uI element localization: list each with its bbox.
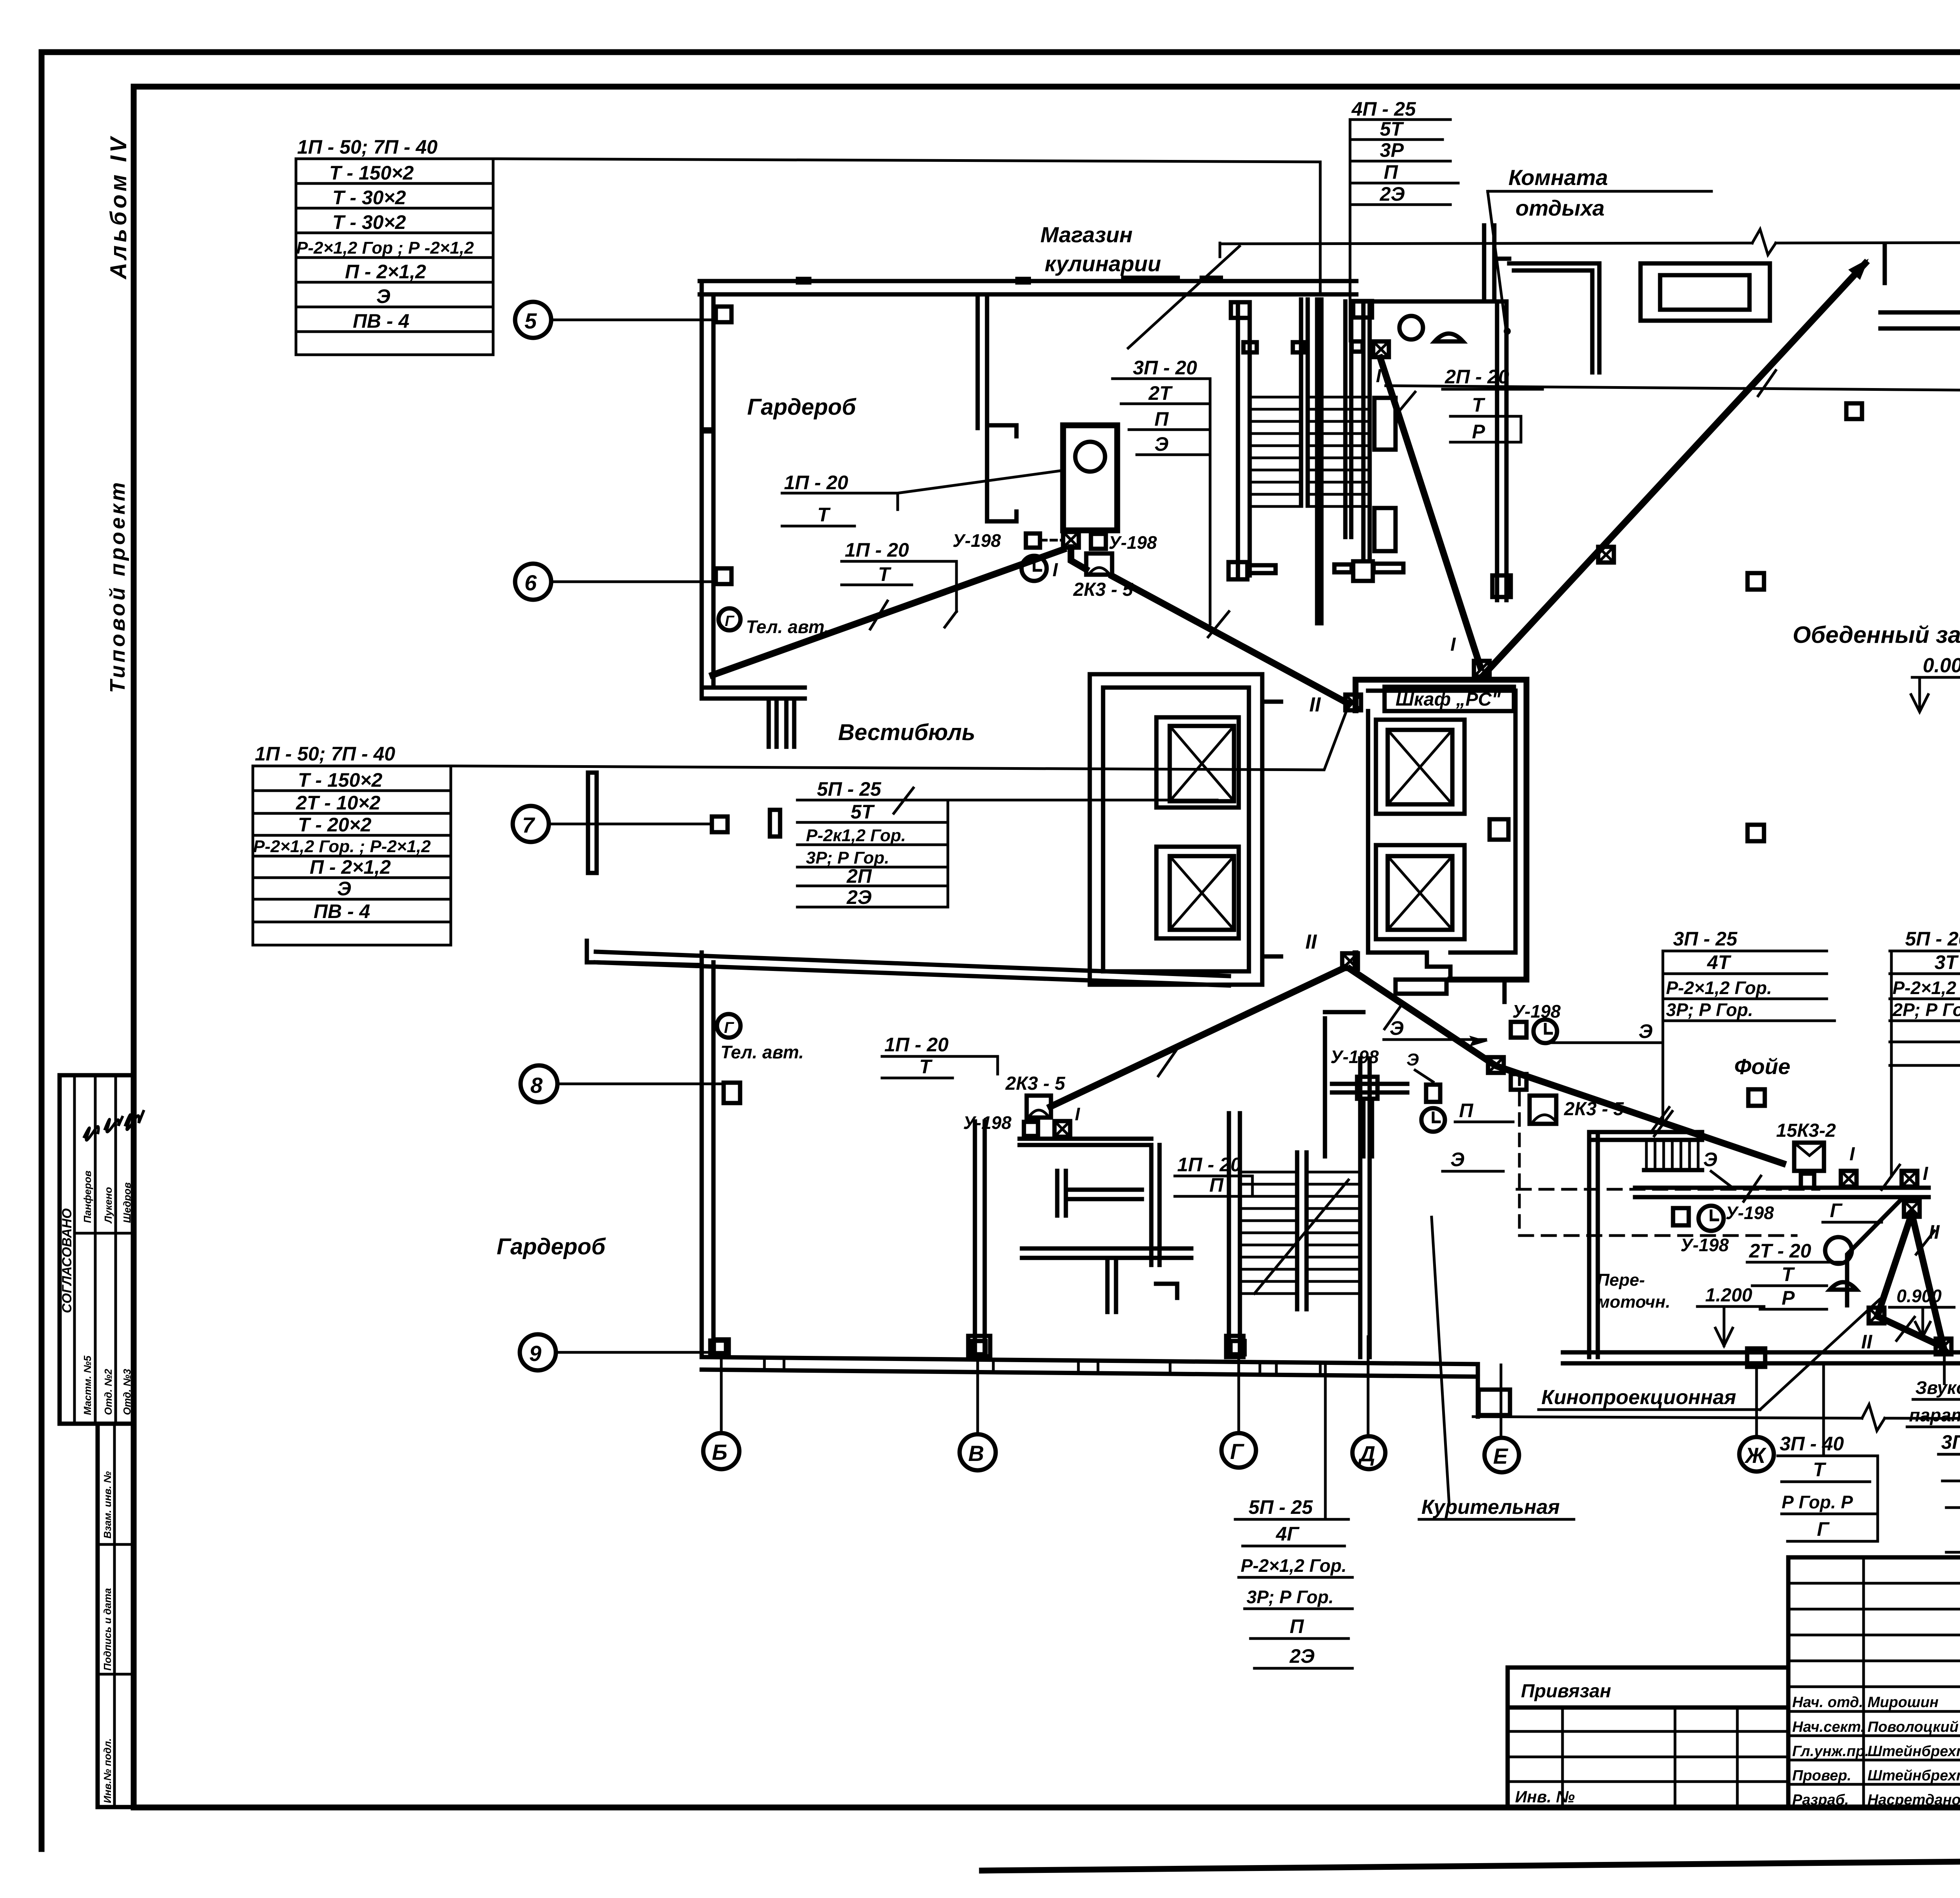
axis Д line [1367,1337,1370,1436]
svg-text:4П - 25: 4П - 25 [1351,98,1416,120]
left block door stubs [1262,700,1281,704]
svg-text:2П - 20: 2П - 20 [1445,366,1509,388]
svg-text:II: II [1305,931,1317,953]
svg-text:Инв.№ подл.: Инв.№ подл. [102,1738,113,1803]
svg-text:3Р; Р Гор.: 3Р; Р Гор. [1666,1000,1753,1020]
wall ticks [764,1358,1320,1375]
tick on dashed [1744,1176,1761,1201]
upper box room [1641,263,1770,321]
svg-text:У-198: У-198 [1726,1203,1774,1223]
svg-text:В: В [968,1441,984,1466]
svg-text:Э: Э [337,878,351,900]
svg-text:Провер.: Провер. [1792,1767,1851,1784]
axis Ж circle [1739,1437,1774,1472]
Г circle lower [717,1014,740,1038]
axis 6 circle [515,564,551,600]
axis 8 wall square [724,1083,740,1103]
svg-text:1П - 20: 1П - 20 [784,472,848,494]
svg-text:Разраб.: Разраб. [1792,1792,1849,1808]
svg-text:Гл.унж.пр.: Гл.унж.пр. [1792,1743,1869,1760]
svg-text:Взам. инв. №: Взам. инв. № [102,1471,113,1539]
svg-text:У-198: У-198 [963,1112,1012,1133]
stair rail feet [1229,562,1247,579]
leader up from table [1822,1365,1825,1456]
svg-text:8: 8 [530,1073,543,1098]
svg-text:У-198: У-198 [1330,1047,1379,1067]
svg-text:Р-2×1,2 Гор ; Р -2×1,2: Р-2×1,2 Гор ; Р -2×1,2 [296,238,474,258]
svg-text:П: П [1209,1174,1224,1196]
leader L2 to elevator block [948,799,1217,802]
right block inner wall [1368,711,1450,980]
svg-text:3П - 25: 3П - 25 [1673,928,1738,950]
dining top wall segment 1 [1880,310,1960,315]
window piers on top wall [796,277,811,285]
svg-text:Г: Г [1817,1518,1830,1540]
svg-text:II: II [1309,693,1321,716]
PLAN-TOP [700,98,1960,1357]
axis В line [976,1354,979,1434]
stair treads [1250,397,1370,506]
axis 9 wall square [710,1341,726,1356]
svg-text:Э: Э [1390,1017,1404,1039]
axis В circle [960,1434,996,1470]
svg-text:3П - 40: 3П - 40 [1780,1433,1844,1455]
svg-text:5П - 25: 5П - 25 [817,778,882,800]
svg-text:1П - 20: 1П - 20 [884,1034,949,1056]
Гардероб-2 top wall (porch hook) [587,941,596,962]
svg-text:Т - 150×2: Т - 150×2 [329,162,414,184]
svg-text:II: II [1861,1331,1873,1353]
svg-text:3Р: 3Р [1380,139,1404,161]
svg-text:Р-2×1,2 Гор. ; Р-2×1,2: Р-2×1,2 Гор. ; Р-2×1,2 [253,837,431,856]
svg-text:I: I [1849,1144,1855,1165]
svg-text:Гардероб: Гардероб [747,394,857,420]
svg-text:Р: Р [1472,421,1485,443]
axis 6 line [551,581,716,583]
leader drop into plan [1319,162,1322,291]
right shaft 2 [1376,845,1465,939]
node II top crossed box [1345,695,1361,710]
interior wall between Гардероб and shop [976,294,980,428]
axis Е circle [1485,1438,1519,1472]
svg-text:Ж: Ж [1744,1443,1767,1468]
svg-text:Фойе: Фойе [1734,1054,1790,1079]
svg-text:Типовой проект: Типовой проект [106,479,129,693]
svg-text:Панферов: Панферов [82,1170,93,1223]
node II crossed box top [1904,1201,1920,1217]
rest room top wall [1351,299,1506,304]
svg-text:ПВ - 4: ПВ - 4 [353,310,409,332]
svg-text:СОГЛАСОВАНО: СОГЛАСОВАНО [60,1208,74,1313]
stair diagonal arrow [1254,1180,1348,1294]
svg-text:2Т - 10×2: 2Т - 10×2 [296,792,381,814]
svg-text:2К3 - 5: 2К3 - 5 [1005,1073,1066,1094]
corridor wall piece left of У-198 assembly [1323,1018,1327,1156]
sidebar approval block [60,1075,133,1424]
trunk diagonal to node II [1112,576,1348,704]
Г circle upper [719,608,740,630]
axis 8 line [557,1083,724,1085]
svg-text:Э: Э [1703,1149,1717,1170]
svg-text:0.000: 0.000 [1923,654,1960,677]
bottom feet [1396,980,1446,994]
svg-text:Э: Э [1450,1149,1465,1170]
tick on trunk [1208,611,1229,637]
svg-text:Нач. отд.: Нач. отд. [1792,1694,1863,1711]
У-198 device right of valve [1091,534,1106,549]
axis Б square [714,1339,729,1353]
axis Д circle [1352,1436,1385,1469]
svg-text:Шедров: Шедров [121,1182,133,1223]
top line left hook [1219,243,1221,257]
big arrow trunk [1482,263,1865,677]
small T partition [1055,1171,1060,1216]
tick on leader [1758,370,1776,396]
svg-text:5Т: 5Т [851,801,875,823]
svg-text:Вестибюль: Вестибюль [838,720,975,745]
washroom box [1063,425,1117,530]
long thin leader to 3П-20 table [1386,386,1960,392]
svg-text:Обеденный зал: Обеденный зал [1793,622,1960,648]
Комната отдыха room left wall [1343,301,1348,537]
svg-text:2Э: 2Э [846,886,872,908]
trunk vertical at washroom [1071,548,1086,569]
axis Ж line [1755,1364,1758,1437]
bottom wall of projection rooms [1563,1350,1960,1355]
door square right side [1490,819,1508,840]
svg-text:У-198: У-198 [1512,1001,1561,1022]
rest room right wall [1495,301,1499,600]
valve crossed box [1488,1057,1504,1073]
svg-text:Э: Э [1154,433,1169,455]
left shaft 1 [1156,717,1239,807]
svg-text:3Т: 3Т [1935,951,1959,973]
svg-text:Мастм. №5: Мастм. №5 [82,1355,93,1415]
svg-text:П: П [1154,408,1169,430]
svg-text:П: П [1384,161,1398,183]
svg-text:Б: Б [712,1440,728,1464]
stair head squares [1231,302,1250,318]
left exterior wall lower part to vestibule [700,953,704,1357]
svg-text:2Р; Р Гор.: 2Р; Р Гор. [1892,1000,1960,1020]
svg-text:1.200: 1.200 [1705,1285,1752,1306]
triangle trunk [1877,1214,1944,1347]
axis 7 circle [513,806,549,842]
node II bottom crossed box [1342,953,1358,969]
svg-text:Т: Т [878,563,892,585]
svg-text:паратн.: паратн. [1909,1405,1960,1425]
leader [1128,246,1240,348]
dash link [1041,539,1063,542]
svg-text:П: П [1290,1615,1304,1637]
washbasin circle [1075,442,1105,472]
node I crossed box at шкаф РС [1474,661,1490,677]
svg-text:Т - 30×2: Т - 30×2 [332,211,406,233]
approval signatures [84,1127,98,1140]
shelf wall with nodes [1635,1186,1929,1190]
axis 5 line [551,319,716,321]
axis 5 circle [515,302,551,338]
svg-text:П - 2×1,2: П - 2×1,2 [310,856,391,878]
leader up [1324,1366,1327,1519]
svg-text:Магазин: Магазин [1040,222,1132,247]
svg-text:Привязан: Привязан [1521,1681,1611,1702]
LABELS-RIGHT [1235,928,1960,1668]
svg-text:Т: Т [1782,1263,1795,1285]
outer border left [39,52,45,1849]
door boxes right of stairs [1374,398,1396,450]
svg-text:Инв. №: Инв. № [1515,1787,1575,1806]
leader from label to node III [1943,1357,1946,1384]
svg-text:Штейнбрехт: Штейнбрехт [1867,1767,1960,1784]
svg-text:Отд. №3: Отд. №3 [121,1369,133,1415]
svg-text:Лукено: Лукено [102,1187,114,1224]
leader from table A to plan [493,159,1320,162]
dining hall interior columns [1846,403,1862,419]
lamp symbol [1435,334,1463,341]
svg-text:2Т: 2Т [1148,382,1173,404]
door gaps marks on left wall [700,427,715,434]
tick [1158,1051,1176,1076]
arrow head [1848,259,1869,280]
svg-text:1П - 20: 1П - 20 [845,539,909,561]
svg-text:Альбом IV: Альбом IV [106,134,131,280]
axis Б circle [703,1433,739,1469]
svg-text:3Р; Р Гор.: 3Р; Р Гор. [806,848,889,867]
svg-text:У-198: У-198 [1109,532,1157,553]
svg-text:Г: Г [1830,1199,1843,1221]
left shaft 2 [1156,847,1239,938]
axis 8 circle [521,1065,557,1102]
svg-text:Пере-: Пере- [1597,1270,1645,1290]
corridor wall beside stairs [1315,299,1319,623]
svg-text:Р-2к1,2 Гор.: Р-2к1,2 Гор. [806,826,906,845]
svg-text:2Т - 20: 2Т - 20 [1749,1240,1811,1262]
svg-text:П: П [1459,1100,1474,1121]
svg-text:Т: Т [1472,394,1486,416]
crossed box I on trunk [1598,547,1614,563]
steep trunk from rest room node I [1380,358,1480,666]
outer border bottom (partial) [982,1856,1960,1871]
sound room slanted wall + fixtures [1847,1199,1901,1305]
svg-text:2К3 - 5: 2К3 - 5 [1564,1099,1624,1120]
svg-text:Отд. №2: Отд. №2 [102,1369,114,1415]
trunk from node II down left [1051,967,1345,1107]
projection grille [1646,1140,1698,1170]
svg-text:I: I [1923,1163,1929,1184]
svg-text:ПВ - 4: ПВ - 4 [314,900,370,922]
axis 9 line [556,1351,710,1354]
interior wall right of Гардероб-2 [973,1121,977,1357]
svg-text:Курительная: Курительная [1421,1496,1560,1519]
svg-text:5П - 20: 5П - 20 [1905,928,1960,950]
node II crossed box left [1869,1308,1884,1323]
svg-text:Тел. авт.: Тел. авт. [746,617,829,637]
tick [870,601,887,629]
porch wall slice [588,773,597,873]
Кинопроекционная walls [1587,1132,1592,1357]
svg-text:Т - 150×2: Т - 150×2 [298,769,383,791]
svg-text:Р: Р [1782,1287,1795,1309]
leader L1 from table B to node II [451,706,1348,770]
tick on L2 [894,788,913,813]
leader from 3П-20 down to trunk [1209,379,1212,624]
rest room upper jog wall [1482,225,1486,301]
stairwell bottom rails [1227,1113,1231,1357]
svg-text:Г: Г [1230,1439,1245,1464]
axis Г line [1238,1354,1240,1433]
axis 5 wall square [716,307,731,322]
шкаф РС box [1385,687,1514,711]
svg-text:2П: 2П [846,865,872,887]
rest room column foot [1492,575,1511,597]
svg-text:2Э: 2Э [1289,1645,1315,1667]
corridor wall right of stairs [1361,304,1366,561]
svg-text:7: 7 [522,813,535,837]
leader drop [1662,951,1664,1123]
trunk from node II down right [1350,969,1783,1163]
ticks on trunk [1385,1003,1403,1029]
svg-text:Д: Д [1358,1441,1375,1466]
svg-text:4Т: 4Т [1707,951,1732,973]
svg-text:3Р; Р Гор.: 3Р; Р Гор. [1247,1587,1334,1607]
leader to washroom [898,470,1063,493]
svg-text:I: I [1053,560,1058,581]
svg-text:Шкаф „РС": Шкаф „РС" [1396,689,1501,710]
svg-text:1П - 50; 7П - 40: 1П - 50; 7П - 40 [255,743,395,765]
step down of exterior wall [1476,1364,1480,1417]
partition walls mid rooms [1149,1145,1154,1265]
device below [1511,1074,1526,1090]
dashed horizontal Э line [1517,1188,1819,1191]
bottom stair treads [1240,1172,1360,1294]
svg-text:У-198: У-198 [1681,1235,1729,1255]
axis 7 wall square [712,817,728,832]
Э dashed vertical [1518,1073,1521,1236]
axis В square [971,1341,985,1354]
svg-text:9: 9 [529,1341,541,1366]
svg-text:1П - 50; 7П - 40: 1П - 50; 7П - 40 [297,136,437,158]
AXES [513,302,1960,1472]
svg-text:моточн.: моточн. [1597,1292,1670,1312]
handrail marks [1243,342,1257,352]
2К3-5 loudspeaker box [1086,553,1112,575]
svg-text:5П - 25: 5П - 25 [1249,1496,1313,1518]
device squares [1511,1022,1526,1038]
svg-text:Р Гор. Р: Р Гор. Р [1782,1492,1853,1512]
thin top line of upper rooms [1220,243,1752,244]
break mark [1862,1404,1885,1431]
svg-text:Т - 30×2: Т - 30×2 [332,187,406,209]
svg-text:У-198: У-198 [953,530,1001,551]
stairwell top rails [1236,304,1240,575]
node I crossed box (rest room) [1373,341,1389,357]
svg-text:Мирошин: Мирошин [1867,1694,1938,1711]
PLAN-BOTTOM [497,608,1960,1519]
svg-text:П - 2×1,2: П - 2×1,2 [345,261,426,283]
vestibule door jambs [767,699,771,747]
leader drop [1349,120,1352,341]
svg-text:15К3-2: 15К3-2 [1776,1120,1836,1141]
node III crossed box right [1936,1339,1951,1354]
vestibule north wall [702,686,805,690]
svg-text:Кинопроекционная: Кинопроекционная [1541,1386,1736,1409]
svg-text:Г: Г [724,1019,735,1036]
svg-text:3П - 40: 3П - 40 [1941,1431,1960,1453]
axis 6 wall square [716,568,731,584]
svg-text:Нач.сект.: Нач.сект. [1792,1719,1865,1735]
break mark [1752,229,1776,255]
leader to room [1488,191,1506,330]
svg-text:6: 6 [524,570,537,595]
valve crossed box [1063,532,1079,548]
outer border top [42,49,1960,55]
TITLEBLOCK [1508,1557,1960,1850]
svg-text:1П - 20: 1П - 20 [1177,1154,1241,1176]
svg-text:Э: Э [376,285,390,307]
svg-text:кулинарии: кулинарии [1045,251,1161,276]
porch pier [770,810,780,836]
left exterior wall upper [700,281,704,699]
upper room walls [1509,263,1599,372]
TABLES-LEFT [253,136,1348,945]
right shaft 1 [1376,720,1465,814]
svg-text:Подпись и дата: Подпись и дата [102,1588,113,1671]
stub below top line [1883,244,1887,283]
leader drop to node I [1890,951,1893,1176]
toilet circle [1399,316,1423,339]
svg-text:Э: Э [1639,1020,1653,1042]
svg-text:Т: Т [817,504,831,526]
svg-text:I: I [1075,1104,1080,1124]
svg-text:Э: Э [1406,1050,1419,1069]
svg-text:3П - 20: 3П - 20 [1133,357,1197,379]
svg-text:Г: Г [725,613,735,630]
top exterior wall (double) [700,279,1356,283]
node I crossed boxes on shelf [1841,1171,1857,1187]
axis 7 line [549,823,711,826]
svg-text:2Э: 2Э [1379,183,1405,205]
label underline [1488,190,1711,193]
svg-text:4Г: 4Г [1276,1523,1300,1545]
axis Г circle [1221,1433,1256,1468]
2К3-5 device foyer [1530,1096,1556,1124]
right elevator block outer wall [1356,680,1526,980]
svg-text:I: I [1450,634,1456,655]
axis Б line [720,1353,723,1433]
device bar wall [1020,1137,1151,1141]
Привязан table [1508,1668,1788,1807]
svg-text:Р-2×1,2 Гор.: Р-2×1,2 Гор. [1241,1555,1347,1576]
sidebar bottom strip [98,1424,133,1807]
У-198 device left of valve [1026,533,1040,548]
svg-text:отдыха: отдыха [1515,196,1604,220]
svg-text:Комната: Комната [1508,165,1608,190]
svg-text:Т: Т [919,1056,933,1078]
svg-text:Р-2×1,2 Гор.: Р-2×1,2 Гор. [1666,978,1772,998]
trunk diagonal to left wall [713,550,1063,675]
svg-text:Насретданов: Насретданов [1867,1792,1960,1808]
axis Е line [1500,1365,1503,1438]
svg-text:5Т: 5Т [1380,118,1405,140]
svg-text:0.900: 0.900 [1896,1286,1942,1306]
rail foot [1226,1336,1243,1357]
lower exterior line [1473,1417,1862,1418]
svg-text:Тел. авт.: Тел. авт. [720,1042,804,1062]
ELEVATORS [838,674,1783,1163]
left elevator block outer walls [1090,674,1262,985]
svg-text:Поволоцкий: Поволоцкий [1867,1719,1958,1735]
